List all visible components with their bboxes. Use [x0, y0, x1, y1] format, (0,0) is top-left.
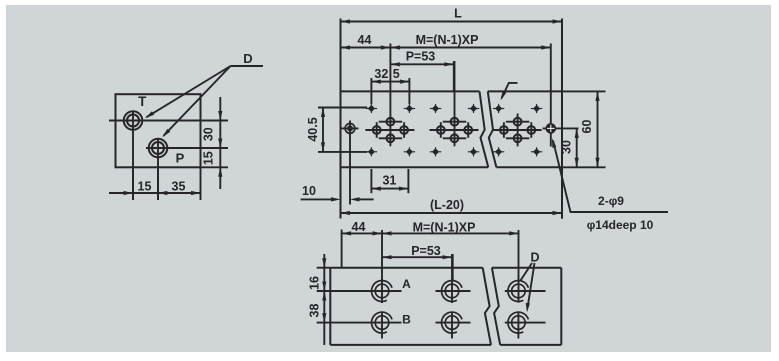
break line left pair in top view [480, 91, 489, 167]
leader D underline [231, 65, 264, 67]
svg-text:M=(N-1)XP: M=(N-1)XP [413, 221, 476, 235]
svg-text:10: 10 [302, 184, 316, 198]
valve port cluster at x=517.6 [493, 114, 542, 147]
bottom view dimension P=53 [452, 254, 454, 281]
svg-text:5: 5 [393, 67, 400, 81]
mounting diamond hole at (409,108) [406, 105, 413, 112]
mounting diamond hole at (499,108) [495, 105, 502, 112]
dimension M=(N-1)XP top [390, 47, 550, 49]
leader flag to diamond hole near break [502, 83, 518, 98]
bottom view dimension M=(N-1)XP [382, 232, 519, 234]
svg-text:38: 38 [307, 304, 321, 318]
left view right extension lines [201, 166, 229, 168]
svg-text:D: D [243, 51, 252, 66]
svg-text:P=53: P=53 [411, 244, 441, 258]
leader from filled hole to labels [553, 141, 668, 213]
port hole B3 [512, 316, 526, 330]
mounting hole right centerlines [543, 127, 579, 129]
port hole A2 [445, 284, 459, 298]
svg-text:B: B [402, 313, 411, 327]
mounting diamond hole at (409,152) [406, 148, 413, 155]
leader D to hole A3 [521, 263, 533, 281]
svg-text:40.5: 40.5 [306, 117, 320, 141]
dimension P=53 top [453, 61, 455, 91]
row A centerline col2 [436, 290, 471, 292]
leader arrow D to P [164, 66, 231, 136]
valve port cluster at x=454.5 [430, 61, 479, 146]
dimension 31 extension lines [370, 169, 372, 193]
bottom view vertical dimension line [323, 254, 325, 345]
dimension 30 right side [576, 128, 578, 167]
left view bottom dimension line [109, 192, 201, 194]
mounting diamond hole at (474,108) [470, 105, 477, 112]
bottom view break line right [492, 268, 500, 345]
svg-text:44: 44 [352, 220, 366, 234]
bottom view dimension 44 [341, 230, 343, 268]
svg-text:L: L [454, 7, 462, 21]
svg-text:31: 31 [382, 174, 396, 188]
dimension 44 top [341, 47, 391, 49]
mounting diamond hole at (537,108) [533, 105, 540, 112]
mounting diamond hole at (474,152) [470, 148, 477, 155]
port T centerline horizontal [109, 120, 228, 122]
svg-text:P: P [176, 151, 185, 166]
left view plate outline [116, 94, 201, 167]
svg-text:(L-20): (L-20) [430, 198, 464, 212]
mounting diamond hole at (436,152) [432, 148, 439, 155]
column centerlines bottom view [381, 230, 383, 303]
dimension 40.5 extension lines [318, 107, 367, 109]
top view plate bottom edge [341, 166, 489, 168]
dimension L line [341, 21, 563, 23]
svg-text:15: 15 [138, 180, 152, 194]
port P circle [149, 139, 168, 158]
port hole B2 [445, 316, 459, 330]
dimension 60 [597, 91, 599, 167]
mounting diamond hole at (499,152) [495, 148, 502, 155]
mounting diamond hole at (537,152) [533, 148, 540, 155]
mounting diamond hole at (371,152) [368, 148, 375, 155]
left view vertical dimension line [219, 97, 221, 189]
mounting diamond hole at (436,108) [432, 105, 439, 112]
svg-text:φ14deep 10: φ14deep 10 [587, 218, 654, 232]
valve port cluster at x=390.4 [365, 44, 414, 147]
svg-text:60: 60 [580, 120, 594, 134]
svg-text:15: 15 [202, 151, 216, 165]
svg-text:44: 44 [358, 33, 372, 47]
port T circle [124, 111, 143, 130]
bottom view plate left edge [329, 268, 331, 345]
row A centerline left [317, 290, 402, 292]
port T centerline vertical / extension [132, 111, 134, 201]
dimension 10 bottom left [301, 198, 333, 200]
port P centerline horizontal [146, 147, 228, 149]
bottom view plate bottom edge [330, 344, 491, 346]
port P centerline vertical / extension [157, 138, 159, 200]
row B centerline left [317, 322, 402, 324]
svg-text:30: 30 [559, 140, 573, 154]
top view plate left edge / extension line [340, 19, 342, 219]
svg-text:M=(N-1)XP: M=(N-1)XP [416, 33, 479, 47]
dimension 32.5 extension lines [370, 78, 372, 104]
mounting hole right 2-phi9 (filled) [547, 124, 556, 133]
row B centerline col2 [436, 322, 471, 324]
bottom view extension lines 16/38 [317, 267, 331, 269]
break line right pair in top view [488, 91, 497, 167]
svg-text:16: 16 [307, 276, 321, 290]
mounting hole left 2-phi9 [345, 123, 355, 133]
port hole A1 [375, 284, 389, 298]
mounting diamond hole at (371,108) [368, 105, 375, 112]
bottom view plate top edge [330, 267, 482, 269]
svg-text:P=53: P=53 [406, 50, 436, 64]
svg-text:D: D [530, 251, 539, 265]
svg-text:30: 30 [202, 127, 216, 141]
row A centerline col3 [505, 290, 546, 292]
top view plate right edge / extension line [561, 19, 563, 219]
leader D to hole B3 with arrow [528, 263, 535, 308]
dimension 40.5 [322, 108, 324, 152]
svg-text:35: 35 [172, 180, 186, 194]
port hole A3 [512, 284, 526, 298]
dimension 60 extension lines [562, 90, 606, 92]
leader arrow D to T [147, 66, 231, 117]
top view plate top edge [341, 90, 480, 92]
dimension 31 [371, 188, 408, 190]
port hole B1 [375, 316, 389, 330]
mounting hole left centerlines [342, 127, 359, 129]
bottom view break line left [483, 268, 491, 345]
dimension 32.5 [371, 81, 409, 83]
bottom view plate right edge [560, 268, 562, 345]
dimension (L-20) [341, 212, 563, 214]
svg-text:A: A [402, 277, 411, 291]
svg-text:2-φ9: 2-φ9 [598, 194, 624, 208]
svg-text:32: 32 [374, 67, 388, 81]
svg-text:T: T [138, 94, 147, 109]
left view bottom extension lines [132, 170, 134, 200]
row B centerline col3 [505, 322, 546, 324]
